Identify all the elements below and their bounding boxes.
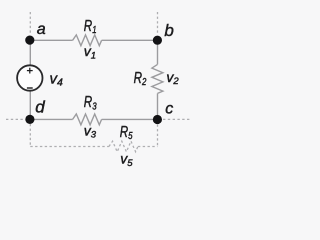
wire: dashed stub above node a: [29, 12, 31, 35]
svg-text:v2: v2: [166, 69, 179, 87]
node c: [153, 115, 162, 124]
wire: dashed branch below node c: [157, 125, 159, 148]
node a: [25, 36, 34, 45]
wire: source V4 down to d: [29, 92, 31, 120]
svg-text:v3: v3: [84, 123, 97, 141]
wire: dashed stub right of node c: [163, 118, 191, 120]
wire: R1 to b: [102, 39, 158, 41]
wire: dashed stub left of node d: [6, 118, 25, 120]
wire: R3 to c: [102, 118, 158, 120]
svg-text:R1: R1: [84, 18, 97, 36]
svg-text:R5: R5: [120, 124, 133, 142]
node b: [153, 36, 162, 45]
wire: b to R2: [157, 40, 159, 64]
svg-text:a: a: [37, 21, 46, 38]
svg-text:d: d: [35, 98, 45, 117]
wire: dashed bottom run d to R5: [30, 146, 109, 148]
svg-text:R2: R2: [134, 70, 147, 88]
resistor R1: [73, 35, 102, 46]
svg-text:v5: v5: [120, 151, 133, 169]
resistor R3: [73, 114, 102, 125]
resistor R5 (dashed): [109, 141, 138, 152]
wire: a down to source V4: [29, 40, 31, 65]
wire: a to R1: [30, 39, 73, 41]
wire: d to R3: [30, 118, 73, 120]
resistor R2: [152, 64, 163, 93]
wire: dashed bottom run R5 to c-leg: [138, 146, 158, 148]
svg-text:b: b: [164, 21, 173, 40]
svg-text:v1: v1: [84, 43, 96, 61]
svg-text:c: c: [165, 100, 173, 117]
node d: [25, 115, 34, 124]
wire: dashed branch below node d: [29, 124, 31, 147]
minus sign of V4: [27, 87, 33, 89]
wire: dashed stub above node b: [157, 12, 159, 35]
wire: R2 to c: [157, 93, 159, 119]
svg-text:v4: v4: [50, 70, 64, 88]
voltage source V4: [17, 65, 42, 90]
svg-text:R3: R3: [84, 94, 97, 112]
plus sign of V4: [27, 68, 33, 74]
